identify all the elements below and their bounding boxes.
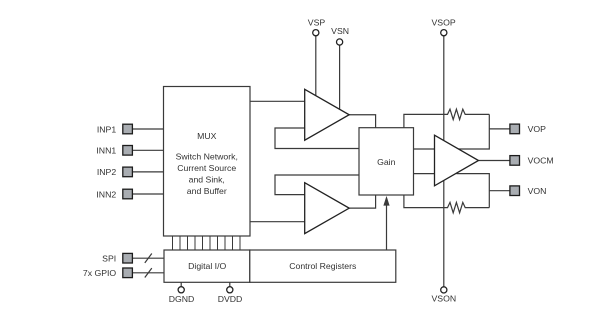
label VSP [308,18,326,28]
svg-text:VSON: VSON [431,293,456,303]
svg-text:VOCM: VOCM [528,156,554,166]
terminal circle DVDD [227,287,233,293]
svg-text:VOP: VOP [528,124,547,134]
pin VOCM [510,156,520,166]
wire A3 positive output [458,114,489,149]
terminal circle VSN [337,39,343,45]
label VOP [528,124,547,134]
pin INP2 [123,167,133,177]
wire DVDD stub [229,282,231,286]
svg-text:and Buffer: and Buffer [187,186,227,196]
wire VON branch [489,190,510,192]
pin GPIO [123,268,133,278]
wire GPIO to Digital I/O [132,268,164,277]
block Digital I/O [164,250,250,282]
pin VON [510,186,520,196]
label Digital I/O [188,261,226,271]
wire Gain to A3 upper input [414,148,435,150]
svg-text:DVDD: DVDD [218,294,243,304]
wire Gain to A3 lower input [414,173,435,175]
svg-text:INP1: INP1 [97,124,116,134]
op-amp A2 buffer bottom [305,183,350,234]
label VOCM [528,156,554,166]
label 7x GPIO [83,268,117,278]
wire INP1 to MUX [132,128,163,130]
svg-text:VSP: VSP [308,18,326,28]
wire gain control from Control Registers [383,196,389,250]
wire MUX to A2 noninverting input [250,221,305,223]
label INN1 [96,146,116,156]
svg-text:MUX: MUX [197,131,217,141]
wire VSOP to VSON supply [443,36,445,287]
svg-text:VSOP: VSOP [432,18,456,28]
wire SPI to Digital I/O [132,254,164,263]
block MUX [164,87,251,237]
terminal circle DGND [178,287,184,293]
pin INN2 [123,189,133,199]
wire A2 output to Gain [349,195,376,208]
wire INP2 to MUX [132,171,163,173]
wire MUX to A1 noninverting input [250,100,305,102]
label Control Registers [289,261,357,271]
svg-text:INN2: INN2 [96,189,116,199]
label INN2 [96,189,116,199]
wire VOP branch [489,128,510,130]
label SPI [102,253,116,263]
block Control Registers [250,250,396,282]
terminal circle VSOP [441,30,447,36]
bus MUX to Digital I/O [173,236,241,250]
pin SPI [123,253,133,263]
svg-text:Digital I/O: Digital I/O [188,261,226,271]
pin INN1 [123,146,133,156]
svg-text:INP2: INP2 [97,167,116,177]
op-amp A3 output amplifier [435,135,479,186]
pin VOP [510,124,520,134]
svg-text:and Sink,: and Sink, [189,175,225,185]
label VON [528,186,547,196]
wire INN1 to MUX [132,149,163,151]
svg-text:DGND: DGND [169,294,195,304]
resistor R1 feedback top [404,109,489,127]
terminal circle VSON [441,287,447,293]
wire A1 output to Gain [349,115,376,128]
block Gain [359,128,414,195]
op-amp A1 buffer top [305,89,350,140]
label MUX [197,131,217,141]
label Gain [377,157,396,167]
svg-text:SPI: SPI [102,253,116,263]
label VSON [431,293,456,303]
svg-text:Current Source: Current Source [177,163,236,173]
label DVDD [218,294,243,304]
wire VOCM output [479,160,510,162]
wire A1 inverting input to Gain [275,128,359,149]
label VSN [331,26,349,36]
svg-text:Switch Network,: Switch Network, [176,152,238,162]
label VSOP [432,18,456,28]
wire DGND stub [180,282,182,286]
wire VSN supply [339,45,341,109]
wire A3 negative output [456,174,489,208]
svg-text:VSN: VSN [331,26,349,36]
wire VSP supply [315,36,317,96]
wire A2 inverting input to Gain [275,175,359,195]
svg-text:VON: VON [528,186,547,196]
pin INP1 [123,124,133,134]
label INP1 [97,124,116,134]
terminal circle VSP [313,30,319,36]
svg-text:INN1: INN1 [96,146,116,156]
svg-text:7x GPIO: 7x GPIO [83,268,117,278]
svg-text:Control Registers: Control Registers [289,261,357,271]
label INP2 [97,167,116,177]
label MUX description [176,152,238,197]
resistor R2 feedback bottom [404,195,489,213]
wire INN2 to MUX [132,193,163,195]
svg-text:Gain: Gain [377,157,396,167]
label DGND [169,294,195,304]
